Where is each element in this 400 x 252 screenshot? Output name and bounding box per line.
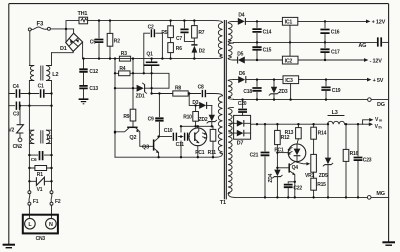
svg-text:C3: C3 [13, 112, 19, 118]
svg-text:DG: DG [377, 102, 385, 108]
svg-text:C14: C14 [263, 29, 272, 35]
svg-text:ZD4: ZD4 [268, 173, 274, 182]
svg-text:C19: C19 [332, 88, 341, 94]
svg-text:D5: D5 [237, 51, 243, 57]
svg-text:R15: R15 [317, 182, 326, 188]
svg-text:Q2: Q2 [129, 135, 136, 141]
svg-text:F1: F1 [33, 199, 39, 205]
svg-text:D2: D2 [199, 48, 205, 54]
svg-text:F2: F2 [55, 199, 61, 205]
svg-text:R2: R2 [114, 39, 120, 45]
svg-text:R13: R13 [285, 130, 294, 136]
svg-text:ZD1: ZD1 [136, 93, 145, 99]
svg-text:C15: C15 [263, 48, 272, 54]
svg-text:ZD2: ZD2 [199, 117, 208, 123]
svg-text:Q4: Q4 [292, 165, 299, 171]
svg-text:TH1: TH1 [78, 11, 88, 17]
svg-text:F3: F3 [37, 21, 44, 27]
svg-text:R9: R9 [123, 114, 129, 120]
svg-text:Q1: Q1 [146, 51, 153, 57]
svg-text:R7: R7 [198, 30, 204, 36]
svg-text:C12: C12 [89, 69, 98, 75]
svg-text:AG: AG [358, 43, 366, 49]
svg-text:R6: R6 [176, 46, 182, 52]
svg-text:Q3: Q3 [142, 145, 149, 151]
svg-text:C2: C2 [148, 25, 154, 31]
svg-text:R11: R11 [208, 150, 217, 156]
svg-text:R10: R10 [183, 115, 192, 121]
svg-text:R3: R3 [121, 51, 127, 57]
svg-text:C23: C23 [363, 158, 372, 164]
svg-text:C6: C6 [31, 157, 37, 163]
svg-text:C9: C9 [148, 117, 154, 123]
svg-text:PC1: PC1 [195, 150, 205, 156]
svg-text:+ 12V: + 12V [372, 20, 386, 26]
svg-text:C4: C4 [13, 84, 19, 90]
svg-text:L1: L1 [47, 135, 53, 141]
svg-text:C11: C11 [176, 142, 185, 148]
svg-text:C13: C13 [89, 86, 98, 92]
svg-text:R8: R8 [175, 86, 181, 92]
svg-text:C21: C21 [250, 153, 259, 159]
svg-text:V1: V1 [37, 187, 43, 193]
svg-text:ZD3: ZD3 [279, 89, 288, 95]
svg-text:D4: D4 [238, 12, 244, 18]
svg-text:+ 5V: + 5V [373, 78, 384, 84]
svg-text:T1: T1 [220, 200, 226, 206]
svg-text:N: N [49, 222, 53, 228]
svg-text:C10: C10 [164, 128, 173, 134]
svg-text:D6: D6 [239, 71, 245, 77]
svg-text:D1: D1 [60, 46, 67, 52]
svg-text:R16: R16 [350, 151, 359, 157]
svg-text:CN2: CN2 [13, 144, 23, 150]
svg-text:C1: C1 [38, 84, 44, 90]
svg-text:CN3: CN3 [36, 236, 46, 242]
svg-text:C8: C8 [198, 85, 204, 91]
svg-text:C20: C20 [238, 101, 247, 107]
svg-text:V2: V2 [8, 127, 14, 133]
svg-text:C16: C16 [331, 30, 340, 36]
svg-text:MG: MG [376, 191, 384, 197]
svg-text:IC3: IC3 [285, 78, 293, 84]
svg-text:D7: D7 [237, 141, 244, 147]
svg-text:R1: R1 [37, 172, 43, 178]
svg-text:IC2: IC2 [285, 58, 293, 64]
svg-text:- 12V: - 12V [370, 58, 383, 64]
svg-text:C5: C5 [90, 40, 96, 46]
svg-text:R4: R4 [119, 66, 125, 72]
svg-text:C22: C22 [293, 185, 302, 191]
svg-text:ZD5: ZD5 [319, 173, 328, 179]
svg-text:C17: C17 [331, 50, 340, 56]
svg-text:C7: C7 [176, 36, 182, 42]
svg-text:L2: L2 [52, 72, 58, 78]
svg-text:R14: R14 [318, 131, 327, 137]
svg-text:IC1: IC1 [285, 20, 293, 26]
svg-text:C18: C18 [243, 89, 252, 95]
